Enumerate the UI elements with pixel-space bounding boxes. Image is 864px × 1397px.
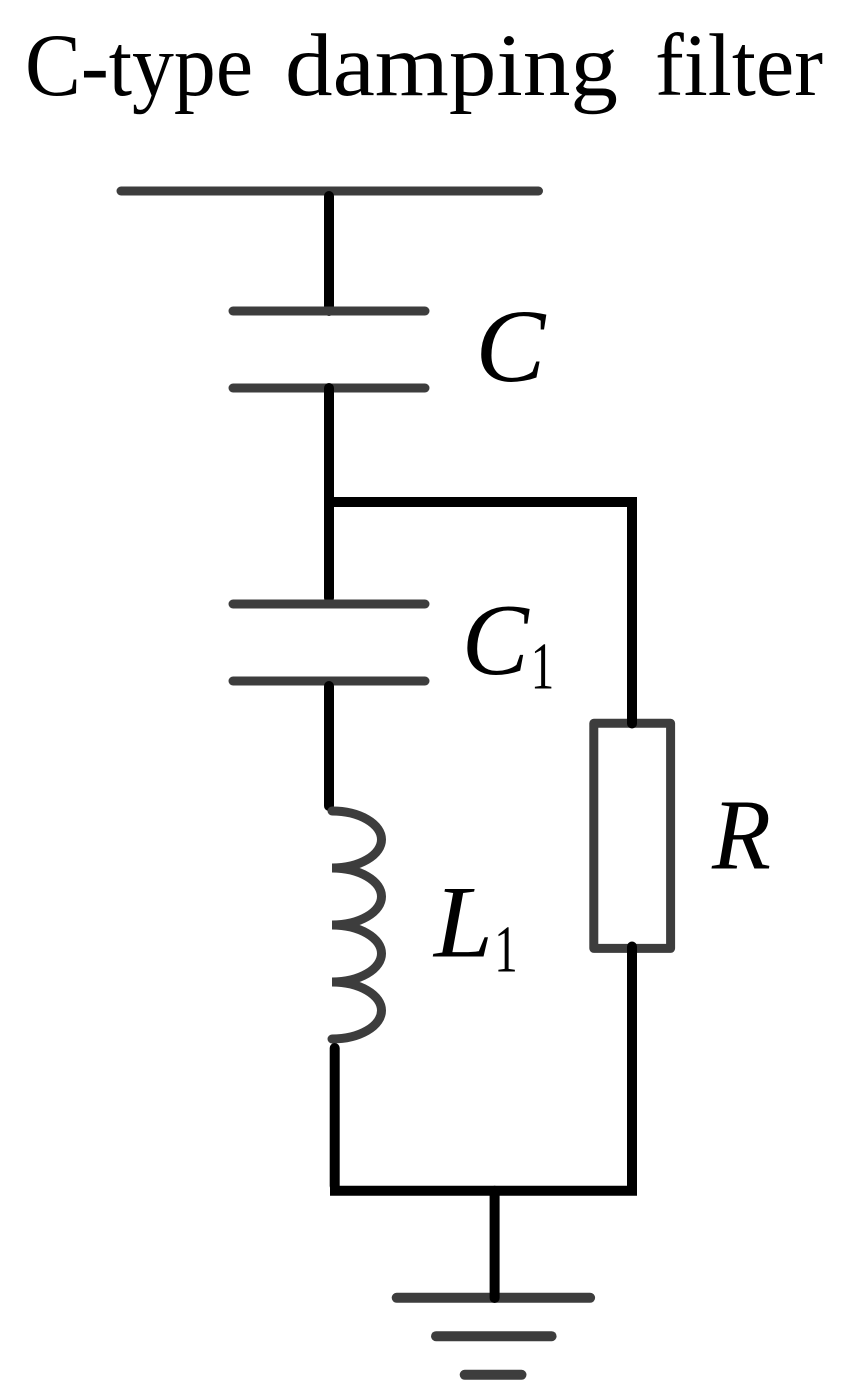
wire: ground stem	[490, 1191, 500, 1298]
wire: right branch tip into resistor R	[627, 714, 637, 724]
wire: bus to capacitor C top plate	[324, 196, 334, 311]
svg-text:C-type: C-type	[25, 17, 253, 115]
svg-text:L: L	[432, 867, 493, 980]
node: top bus bar	[121, 187, 539, 196]
ground bar 1	[397, 1293, 590, 1303]
svg-text:C: C	[462, 584, 530, 697]
svg-text:filter: filter	[655, 17, 823, 115]
svg-text:R: R	[711, 779, 771, 891]
wire: capacitor C1 bottom plate to inductor L1	[324, 686, 334, 806]
svg-text:1: 1	[531, 628, 554, 703]
capacitor C bottom plate	[233, 384, 425, 393]
svg-text:1: 1	[494, 911, 517, 986]
resistor R body	[594, 723, 671, 948]
capacitor C top plate	[233, 307, 425, 316]
svg-text:damping: damping	[285, 17, 618, 115]
wire: resistor R bottom to bottom node	[627, 947, 637, 1186]
svg-text:C: C	[475, 289, 547, 404]
capacitor C1 top plate	[233, 600, 425, 609]
wire: node horizontal to right branch	[324, 502, 632, 718]
ground bar 3	[465, 1370, 522, 1380]
wire: inductor L1 bottom to bottom node	[330, 1048, 340, 1186]
wire: capacitor C bottom plate through node to capacitor C1 top plate	[324, 388, 334, 598]
capacitor C1 bottom plate	[233, 677, 425, 686]
inductor L1 coil	[332, 811, 382, 1039]
node: bottom horizontal wire	[330, 1186, 637, 1196]
ground bar 2	[436, 1331, 552, 1341]
